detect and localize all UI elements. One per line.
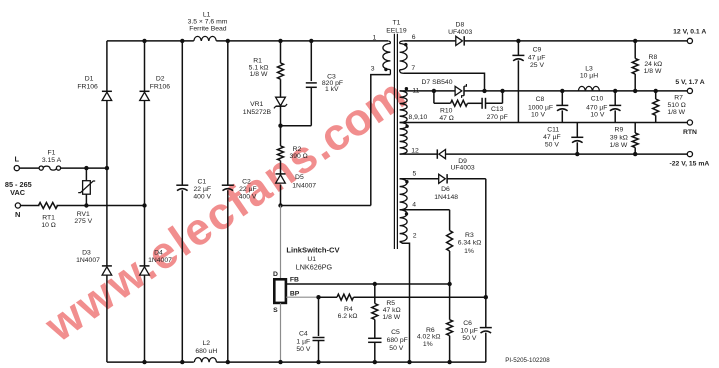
svg-text:S: S — [273, 307, 278, 314]
svg-text:10 V: 10 V — [590, 111, 604, 118]
wire — [371, 75, 391, 206]
wire — [464, 90, 687, 92]
svg-text:D2: D2 — [156, 76, 165, 83]
capacitor C6 — [485, 297, 487, 327]
svg-text:D7 SB540: D7 SB540 — [422, 79, 453, 86]
wire — [446, 153, 688, 155]
svg-text:LNK626PG: LNK626PG — [296, 262, 333, 271]
svg-text:8,9,10: 8,9,10 — [408, 114, 427, 121]
svg-text:3: 3 — [371, 65, 375, 72]
ic U1 LNK626PG — [280, 206, 282, 280]
node — [316, 295, 320, 299]
capacitor C1 — [181, 41, 183, 185]
wire — [106, 275, 108, 362]
svg-text:25 V: 25 V — [530, 62, 544, 69]
polarity dot pin8910 — [405, 125, 408, 128]
svg-text:270 pF: 270 pF — [487, 114, 508, 121]
svg-text:7: 7 — [411, 65, 415, 72]
wire pin12 — [400, 153, 404, 155]
svg-text:Ferrite Bead: Ferrite Bead — [189, 26, 227, 33]
svg-text:50 V: 50 V — [296, 346, 310, 353]
terminal N — [15, 203, 20, 208]
diode D5 — [276, 173, 286, 175]
wire bottom rail — [107, 361, 194, 363]
svg-text:C8: C8 — [536, 96, 545, 103]
svg-text:R5: R5 — [386, 300, 395, 307]
diode D1 — [102, 90, 112, 92]
winding bias 5-4 — [400, 179, 408, 210]
svg-text:C1: C1 — [197, 178, 206, 185]
node — [142, 39, 146, 43]
svg-text:D1: D1 — [85, 76, 94, 83]
diode D4 — [140, 265, 150, 267]
node N-bridge — [84, 203, 88, 207]
svg-text:10 Ω: 10 Ω — [41, 222, 56, 229]
wire drain — [281, 205, 371, 207]
svg-text:6.2 kΩ: 6.2 kΩ — [338, 313, 358, 320]
svg-text:1/8 W: 1/8 W — [610, 142, 628, 149]
winding secondary 11-8,9,10 — [400, 91, 408, 123]
svg-text:1/8 W: 1/8 W — [382, 314, 400, 321]
svg-text:BP: BP — [290, 290, 300, 297]
wire top rail — [107, 40, 194, 42]
polarity dot pin5 — [405, 180, 408, 183]
capacitor C9 — [517, 41, 519, 56]
terminal 12V — [687, 38, 692, 43]
wire pin2 — [400, 242, 410, 363]
svg-text:R3: R3 — [465, 232, 474, 239]
wire RTN line — [404, 122, 687, 124]
svg-text:D6: D6 — [441, 186, 450, 193]
svg-text:680 pF: 680 pF — [387, 337, 408, 344]
svg-text:FR106: FR106 — [77, 84, 98, 91]
svg-text:1N4007: 1N4007 — [148, 257, 172, 264]
node — [226, 360, 230, 364]
wire — [216, 40, 388, 42]
svg-text:12: 12 — [411, 147, 419, 154]
svg-text:C2: C2 — [242, 178, 251, 185]
node snubber left — [432, 89, 436, 93]
wire — [280, 106, 282, 146]
wire — [319, 296, 338, 298]
svg-text:RTN: RTN — [683, 129, 697, 136]
wire 12V line — [464, 40, 687, 42]
wire — [144, 275, 146, 362]
svg-text:1: 1 — [373, 34, 377, 41]
inductor L2 — [194, 358, 216, 363]
svg-text:C10: C10 — [591, 96, 604, 103]
svg-text:1N4007: 1N4007 — [292, 182, 316, 189]
diode D2 — [140, 90, 150, 92]
node VR1-R2 — [278, 124, 282, 128]
svg-text:10 µH: 10 µH — [580, 73, 598, 80]
svg-text:C11: C11 — [547, 127, 559, 134]
svg-text:C6: C6 — [463, 320, 472, 327]
svg-text:PI-5205-102208: PI-5205-102208 — [505, 357, 550, 364]
wire — [61, 167, 107, 169]
svg-text:D8: D8 — [456, 22, 465, 29]
svg-text:UF4003: UF4003 — [448, 29, 472, 36]
resistor R4 — [337, 294, 354, 300]
svg-text:-22 V, 15 mA: -22 V, 15 mA — [669, 161, 709, 168]
svg-text:FB: FB — [290, 277, 299, 284]
winding primary 1-3 — [388, 41, 390, 44]
resistor R3 — [449, 210, 451, 231]
svg-text:C13: C13 — [491, 106, 504, 113]
svg-text:D3: D3 — [82, 250, 91, 257]
svg-text:390 Ω: 390 Ω — [289, 153, 307, 160]
wire — [106, 41, 108, 91]
inductor L1 — [194, 36, 217, 41]
svg-text:F1: F1 — [48, 150, 56, 157]
svg-text:5 V, 1.7 A: 5 V, 1.7 A — [675, 79, 704, 86]
node drain — [278, 203, 282, 207]
svg-text:FR106: FR106 — [150, 84, 171, 91]
svg-text:L: L — [15, 155, 20, 164]
svg-text:R9: R9 — [615, 127, 624, 134]
wire — [404, 153, 437, 155]
node — [482, 89, 486, 93]
svg-text:C4: C4 — [299, 331, 308, 338]
svg-text:47 µF: 47 µF — [528, 55, 546, 62]
svg-text:EEL19: EEL19 — [386, 28, 407, 35]
polarity dot pin4 — [405, 212, 408, 215]
wire — [144, 100, 146, 205]
svg-text:1N4148: 1N4148 — [434, 194, 458, 201]
svg-text:R7: R7 — [674, 94, 683, 101]
capacitor C2 — [227, 41, 229, 185]
svg-text:50 V: 50 V — [389, 345, 403, 352]
thermistor RT1 — [39, 203, 58, 209]
diode D3 — [102, 265, 112, 267]
wire pin7 — [404, 73, 485, 91]
transformer T1 core — [393, 34, 395, 249]
wire pin5 — [400, 178, 439, 180]
svg-text:D5: D5 — [295, 174, 304, 181]
svg-text:LinkSwitch-CV: LinkSwitch-CV — [286, 245, 340, 254]
capacitor C3 — [310, 41, 312, 81]
wire BP gray — [286, 296, 318, 298]
diode D9 — [436, 149, 438, 158]
resistor R5 — [374, 284, 376, 304]
svg-text:RV1: RV1 — [77, 211, 90, 218]
svg-text:50 V: 50 V — [462, 335, 476, 342]
capacitor C4 — [318, 297, 320, 336]
wire — [449, 336, 451, 363]
svg-text:L3: L3 — [585, 66, 593, 73]
wire — [280, 185, 282, 206]
wire pin8910 — [400, 122, 404, 124]
svg-text:47 Ω: 47 Ω — [439, 115, 454, 122]
svg-text:6: 6 — [412, 34, 416, 41]
svg-text:47 µF: 47 µF — [543, 134, 561, 141]
diode D8 — [404, 40, 456, 42]
svg-text:1%: 1% — [464, 248, 474, 255]
svg-text:1N5272B: 1N5272B — [243, 109, 272, 116]
polarity dot pin3 — [384, 68, 387, 71]
svg-text:C9: C9 — [533, 46, 542, 53]
wire — [144, 41, 146, 91]
svg-text:22 µF: 22 µF — [239, 186, 257, 193]
resistor R7 — [655, 91, 657, 99]
svg-text:10 V: 10 V — [531, 111, 545, 118]
fuse F1 — [39, 166, 43, 170]
svg-text:5: 5 — [413, 171, 417, 178]
wire — [354, 296, 486, 298]
resistor R9 — [634, 123, 636, 134]
svg-text:VAC: VAC — [10, 188, 26, 197]
svg-text:L1: L1 — [203, 12, 211, 19]
polarity dot pin6 — [404, 43, 407, 46]
svg-text:1 µF: 1 µF — [296, 339, 310, 346]
winding secondary 8,9,10-12 — [400, 123, 408, 155]
node L-bridge — [84, 166, 88, 170]
svg-text:50 V: 50 V — [545, 142, 559, 149]
svg-text:1/8 W: 1/8 W — [250, 71, 268, 78]
node — [516, 39, 520, 43]
resistor R2 — [278, 146, 284, 161]
resistor R8 — [634, 41, 636, 59]
svg-text:UF4003: UF4003 — [451, 165, 475, 172]
wire — [447, 178, 486, 180]
svg-text:39 kΩ: 39 kΩ — [610, 134, 628, 141]
svg-text:1%: 1% — [423, 341, 433, 348]
svg-text:510 Ω: 510 Ω — [668, 102, 686, 109]
svg-text:C5: C5 — [391, 329, 400, 336]
svg-text:275 V: 275 V — [74, 218, 92, 225]
varistor RV1 — [85, 168, 87, 181]
node — [142, 360, 146, 364]
capacitor C8 — [561, 91, 563, 106]
svg-text:10 µF: 10 µF — [460, 328, 478, 335]
svg-text:1/8 W: 1/8 W — [667, 109, 685, 116]
svg-text:1/8 W: 1/8 W — [644, 68, 662, 75]
wire — [280, 161, 282, 176]
svg-text:R10: R10 — [440, 107, 453, 114]
svg-text:N: N — [15, 210, 20, 219]
winding bias 4-2 — [400, 210, 408, 242]
node — [484, 295, 488, 299]
svg-text:D4: D4 — [154, 250, 163, 257]
svg-text:T1: T1 — [393, 20, 401, 27]
wire — [106, 100, 108, 168]
svg-text:3.5 × 7.6 mm: 3.5 × 7.6 mm — [188, 19, 228, 26]
wire FB — [286, 283, 450, 285]
capacitor C5 — [374, 320, 376, 339]
svg-text:4.02 kΩ: 4.02 kΩ — [417, 334, 441, 341]
node — [575, 152, 579, 156]
snubber C13 — [468, 102, 483, 104]
svg-text:4: 4 — [412, 202, 416, 209]
svg-text:1N4007: 1N4007 — [76, 257, 100, 264]
diode D6 — [439, 174, 446, 183]
svg-text:L2: L2 — [203, 340, 211, 347]
wire — [20, 167, 39, 169]
wire pin11 — [400, 90, 404, 92]
svg-text:3.15 A: 3.15 A — [42, 157, 62, 164]
svg-text:VR1: VR1 — [250, 101, 263, 108]
capacitor C11 — [576, 123, 578, 138]
wire 5V line left — [404, 90, 455, 92]
svg-text:1 kV: 1 kV — [325, 86, 339, 93]
wire — [21, 205, 40, 207]
resistor R6 — [449, 284, 451, 320]
svg-text:6.34 kΩ: 6.34 kΩ — [458, 240, 482, 247]
svg-text:D: D — [273, 271, 278, 278]
svg-text:24 kΩ: 24 kΩ — [644, 61, 662, 68]
terminal 5V — [687, 88, 692, 93]
polarity dot pin11 — [405, 87, 408, 90]
node — [373, 282, 377, 286]
svg-text:2: 2 — [413, 233, 417, 240]
wire pin4 — [400, 209, 450, 211]
zener VR1 — [280, 79, 282, 97]
svg-text:R2: R2 — [293, 146, 302, 153]
node — [226, 39, 230, 43]
terminal L — [14, 166, 19, 171]
svg-text:400 V: 400 V — [193, 194, 211, 201]
inductor L3 — [578, 86, 599, 91]
svg-text:12 V, 0.1 A: 12 V, 0.1 A — [673, 28, 706, 35]
winding secondary 6-7 — [400, 41, 404, 44]
resistor R1 — [280, 41, 282, 63]
svg-text:22 µF: 22 µF — [194, 186, 212, 193]
svg-text:R8: R8 — [649, 54, 658, 61]
diode D7 schottky — [455, 86, 462, 95]
svg-text:680 uH: 680 uH — [195, 348, 217, 355]
svg-text:400 V: 400 V — [239, 194, 257, 201]
wire — [57, 205, 145, 207]
terminal -22V — [687, 152, 692, 157]
wire — [217, 361, 486, 363]
svg-text:RT1: RT1 — [42, 214, 55, 221]
capacitor C10 — [614, 91, 616, 106]
wire — [106, 168, 108, 266]
terminal RTN — [687, 120, 692, 125]
snubber R10 — [433, 91, 435, 103]
wire — [144, 206, 146, 266]
